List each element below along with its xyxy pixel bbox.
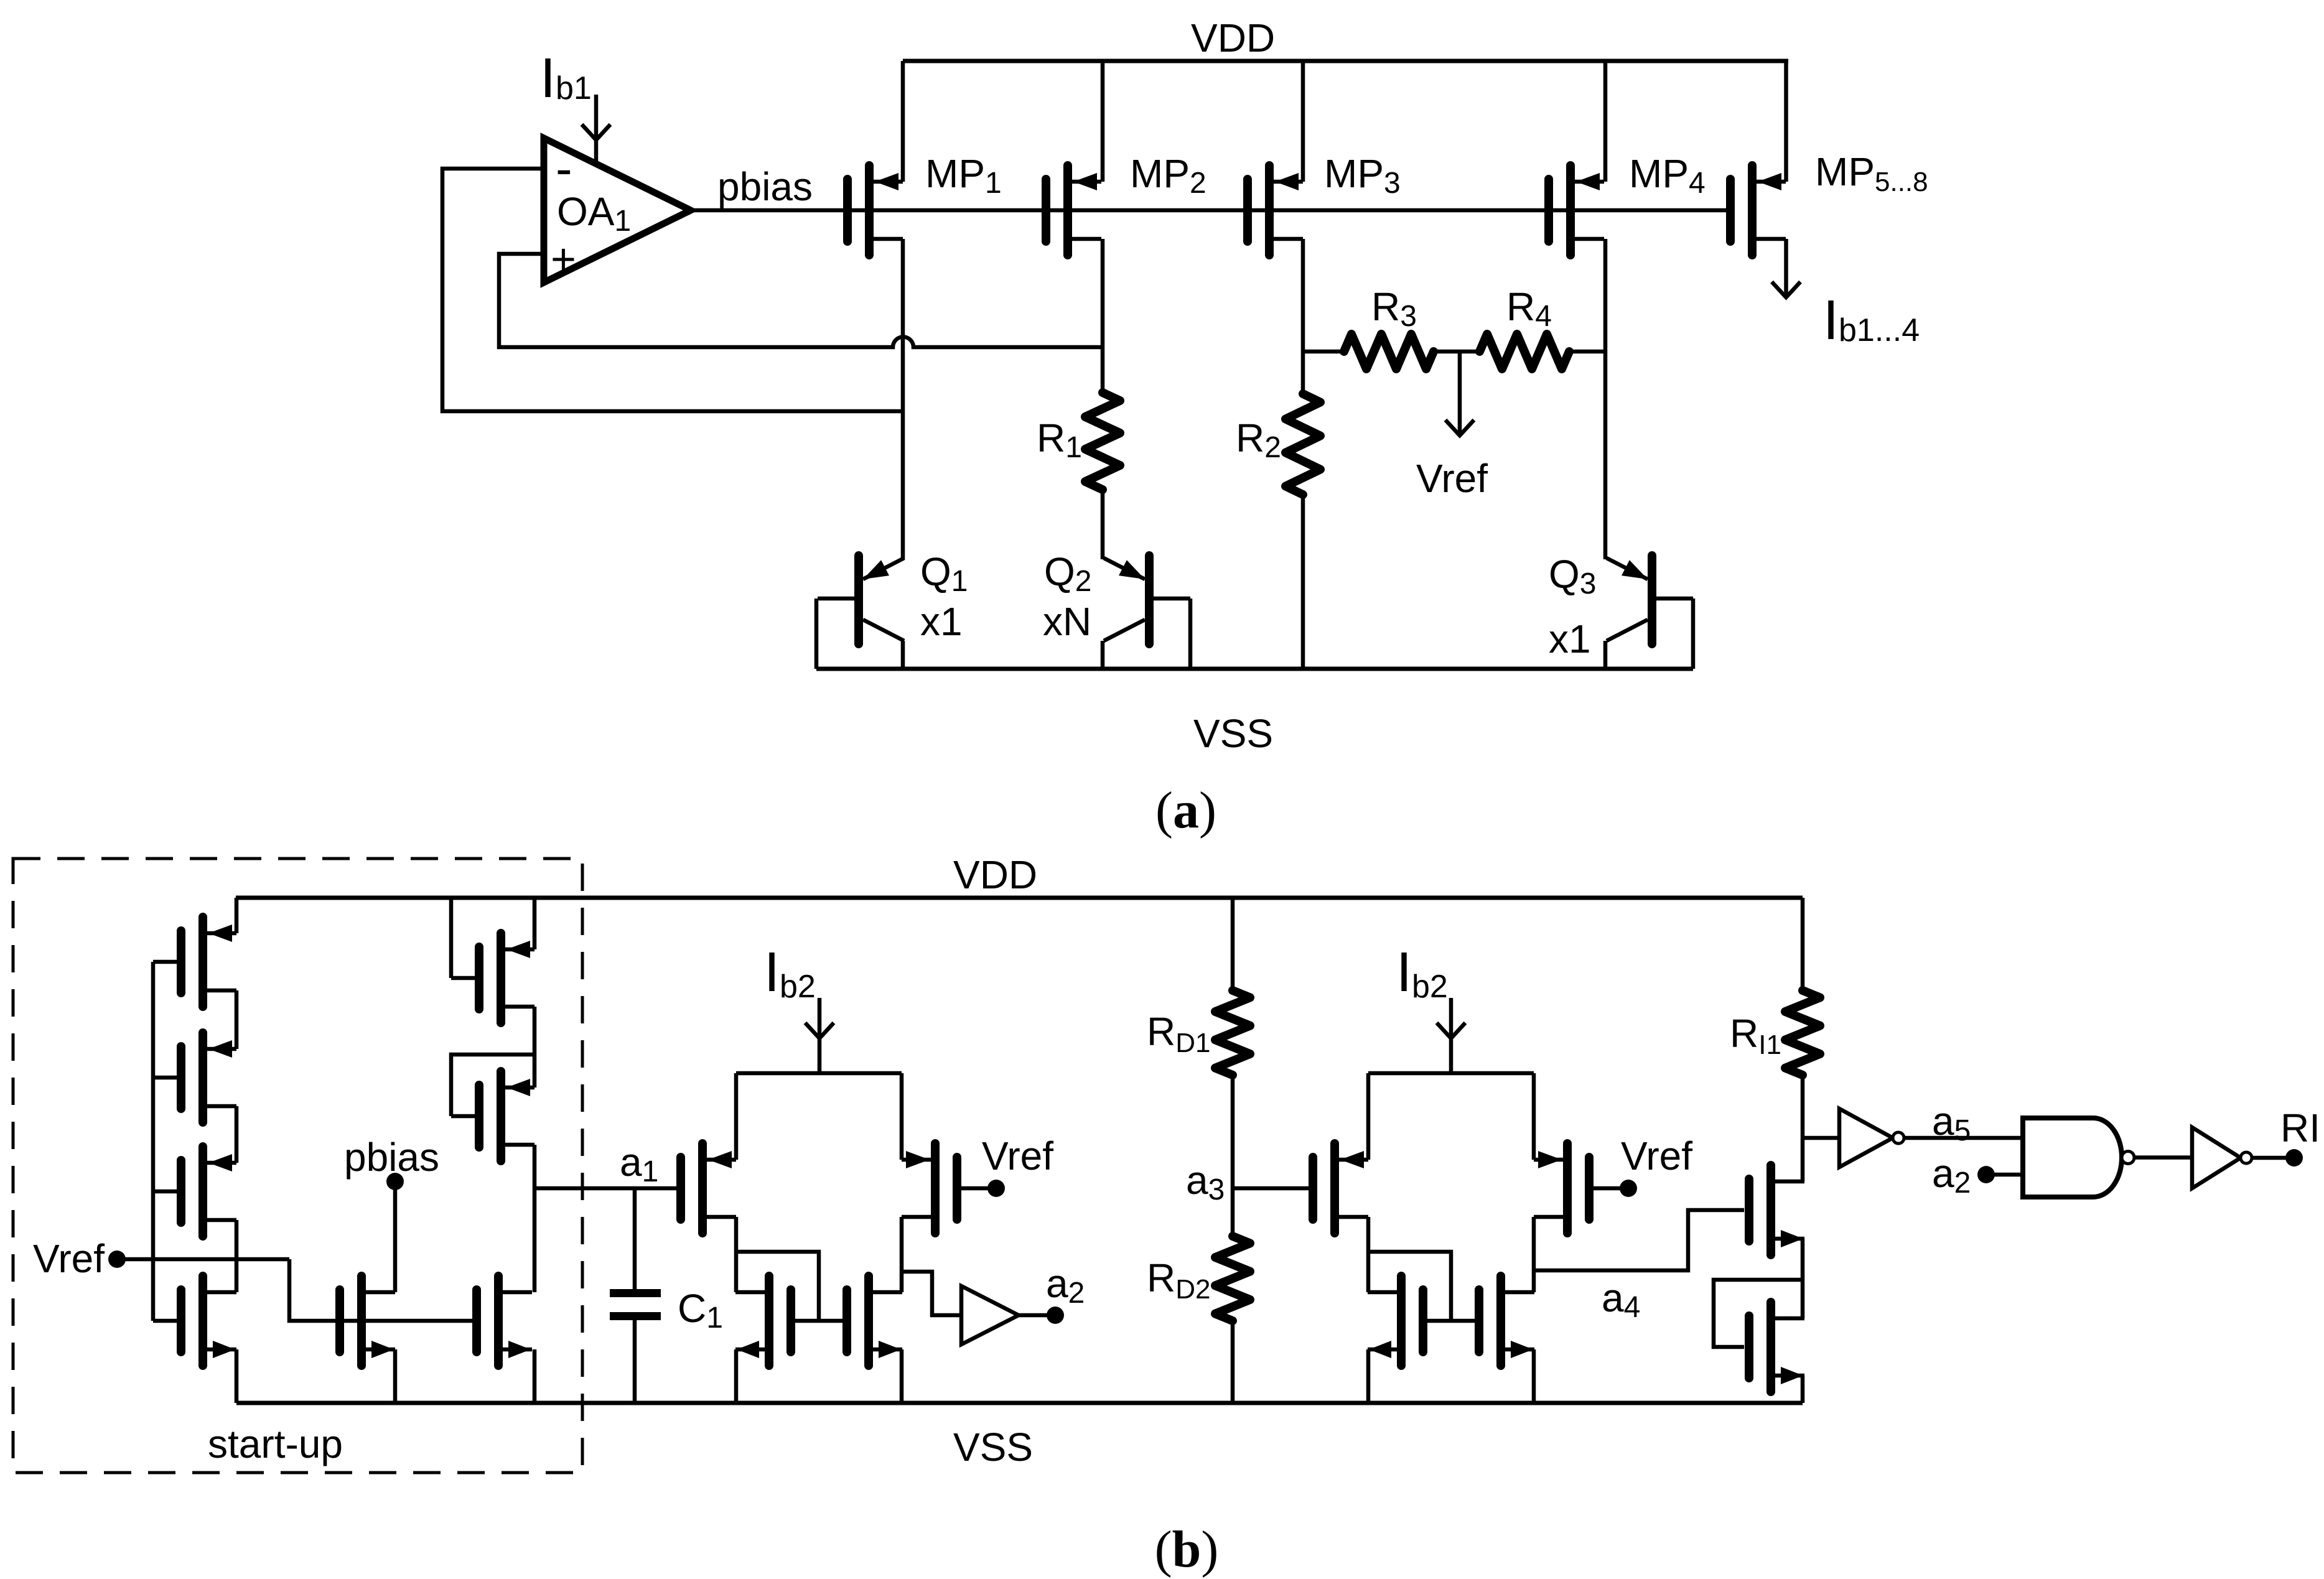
wire OA1 minus input [442,169,903,411]
wire VDD to MP5..8 source [1784,61,1788,182]
VDD rail (a) [903,59,1788,63]
wire RI1 to output NMOS [1801,1075,1805,1181]
svg-text:pbias: pbias [344,1135,439,1180]
wire mirror right source to VSS (comp1) [900,1349,904,1403]
VDD rail (b) [236,896,1803,900]
transistor M8 start-up [494,1276,503,1366]
wire inverter1 input [1803,1136,1839,1140]
pbias dot [386,1173,404,1190]
wire node a3 [1233,1186,1313,1191]
wire comp2 right source [1532,1073,1536,1160]
M2 gate stub [153,1076,181,1080]
wire pbias gate rail [691,208,1731,213]
tail rail comp1 [736,1071,902,1076]
NAND gate U1 [2023,1118,2122,1197]
resistor R2 [1286,394,1320,495]
capacitor C1 [610,1289,661,1297]
resistor R1 [1085,393,1120,490]
transistor MP1 [865,165,874,255]
resistor R4 [1480,334,1569,369]
svg-text:Vref: Vref [33,1236,105,1281]
wire comp1 right drain [900,1217,904,1292]
wire comp1 right source [900,1073,904,1160]
svg-text:VDD: VDD [953,852,1037,897]
transistor MN output lower [1766,1302,1775,1392]
wire M2 drain to M3 source [235,1106,239,1163]
wire mirror gates (comp2) [1423,1319,1479,1323]
wire start-up gate line [151,962,156,1321]
M6 gate stub [451,1114,479,1119]
svg-text:-: - [556,141,572,196]
wire output source to VSS [1801,1376,1805,1403]
transistor MN mirror right (comp1) [864,1276,873,1366]
transistor M2 start-up stack [198,1033,207,1122]
transistor MP Vref input (comp2) [1563,1143,1572,1233]
wire node a1 [534,1186,681,1191]
transistor M1 start-up stack [198,917,207,1007]
wire M7 drain to pbias [393,1181,398,1292]
wire a2 tap [902,1272,961,1315]
wire M5 gate to VDD [449,898,454,978]
wire Q3 collector to VSS [1603,641,1608,669]
transistor MN output upper [1766,1165,1775,1255]
current source Ib1 arrow [594,95,599,162]
wire VDD to RD1 [1231,898,1235,990]
svg-text:(b): (b) [1155,1521,1219,1578]
wire M3 drain to M4 drain [235,1220,239,1292]
wire Q1 base to VSS [814,599,819,669]
wire MP3 drain down [1301,239,1305,394]
transistor MP a3 input [1330,1143,1339,1233]
wire Q3 base to VSS [1691,599,1696,669]
resistor RI1 [1785,990,1820,1075]
transistor MN mirror left (comp1) [765,1276,773,1366]
transistor Q2 [1145,556,1154,644]
wire output mid [1801,1239,1805,1318]
wire Vref input [117,1257,289,1262]
svg-text:x1: x1 [920,599,963,644]
svg-text:VSS: VSS [953,1425,1033,1470]
svg-text:xN: xN [1043,599,1091,644]
svg-text:+: + [551,235,576,283]
wire VDD to MP3 source [1301,61,1305,182]
wire stack source to VDD [235,898,239,933]
wire R3-R4 mid node [1434,350,1480,354]
transistor M3 start-up stack [198,1147,207,1236]
buffer a2 [961,1286,1019,1344]
Vref dot (comp1) [987,1180,1005,1197]
a2 dot [1047,1307,1064,1324]
svg-text:Vref: Vref [1416,456,1488,501]
wire MP5..8 drain [1784,239,1788,297]
wire MP4 drain to Q3 [1603,239,1608,559]
svg-text:RI: RI [2280,1106,2320,1150]
wire inverter2 to RI dot [2252,1156,2286,1160]
transistor MP2 [1063,165,1072,255]
VSS rail (b) [236,1401,1803,1405]
Ib1...4 output arrow [1772,282,1801,297]
inverter a5 [1839,1109,1893,1167]
wire M8 source to VSS [533,1349,537,1403]
wire M6 gate to source node [451,1055,534,1116]
wire Q1 collector to VSS [901,641,905,669]
wire node a4 [1534,1210,1744,1270]
M3 gate stub [153,1190,181,1194]
svg-text:VSS: VSS [1193,711,1273,756]
transistor M7 start-up [357,1276,366,1366]
op-amp OA1 [544,138,691,282]
transistor M5 start-up [497,933,505,1023]
svg-text:pbias: pbias [717,164,813,209]
M1 gate stub [153,960,181,964]
transistor M6 start-up [497,1071,505,1161]
M5 gate stub [451,976,479,980]
transistor MP a1 input [698,1143,707,1233]
wire Vref to NMOS gates [289,1259,477,1321]
wire MP1 drain to Q1 [901,239,905,559]
transistor MP4 [1566,165,1575,255]
svg-text:VDD: VDD [1191,16,1275,60]
wire comp2 left drain [1366,1217,1371,1292]
wire M1 drain to M2 source [235,990,239,1049]
resistor RD2 [1215,1236,1250,1321]
wire VDD to MP2 source [1101,61,1105,182]
wire Q2 base to VSS [1188,599,1193,669]
wire a1 to C1 [633,1188,637,1289]
wire VDD to MP1 source [901,61,905,182]
transistor MN mirror left (comp2) [1397,1276,1406,1366]
inverter RI [2192,1127,2241,1188]
wire Ib2 arrow (comp1) [818,998,822,1073]
transistor Q1 [854,556,863,644]
wire VDD to MP4 source [1603,61,1608,182]
wire MP2 drain to R1 [1101,239,1105,393]
wire mirror gates (comp1) [791,1319,847,1323]
Vref gate stub (comp2) [1589,1186,1620,1191]
wire R4 right [1569,350,1605,354]
wire Q2 collector to VSS [1101,641,1105,669]
transistor MN mirror right (comp2) [1496,1276,1505,1366]
wire mirror right source to VSS (comp2) [1532,1349,1536,1403]
wire R1 to Q2 [1101,490,1105,559]
svg-text:start-up: start-up [208,1422,343,1466]
svg-text:Vref: Vref [982,1134,1053,1178]
transistor M4 start-up stack [198,1276,207,1366]
wire buffer to a2 dot [1019,1313,1048,1318]
wire mirror diode (comp1) [736,1252,819,1321]
RI dot [2285,1149,2303,1167]
wire comp1 left drain [734,1217,739,1292]
resistor RD1 [1215,990,1250,1075]
start-up block box [13,859,582,1473]
wire comp2 right drain [1532,1217,1536,1292]
wire M7 source to VSS [393,1349,398,1403]
resistor R3 [1344,334,1434,369]
wire a2 to NAND [1986,1173,2023,1177]
wire RD1 to RD2 [1231,1075,1235,1236]
wire M6 drain down [533,1145,537,1292]
Vref gate stub (comp1) [957,1186,988,1191]
Vref arrow (a) [1458,352,1462,436]
wire lower gate loop [1714,1280,1803,1347]
wire M4 source to VSS [235,1349,239,1403]
wire VDD to RI1 [1801,898,1805,990]
Vref input dot [108,1251,126,1268]
wire NAND to inverter2 [2134,1155,2192,1160]
svg-text:x1: x1 [1549,617,1591,661]
wire comp1 left source [734,1073,739,1160]
VSS rail (a) [816,667,1693,671]
wire mirror left source to VSS (comp2) [1366,1349,1371,1403]
transistor MP3 [1265,165,1274,255]
wire C1 to VSS [633,1320,637,1403]
M4 gate stub [153,1319,181,1323]
wire R3 left [1303,350,1344,354]
wire RD2 to VSS [1231,1321,1235,1403]
svg-text:(a): (a) [1155,781,1216,839]
wire comp2 left source [1366,1073,1371,1160]
transistor MP Vref input (comp1) [931,1143,940,1233]
wire OA1 plus input with hop [499,254,1101,347]
tail rail comp2 [1368,1071,1534,1076]
wire R2 to VSS [1301,495,1305,669]
transistor Q3 [1648,556,1656,644]
wire M5 source to VDD [533,898,537,949]
transistor MP5...8 [1748,165,1757,255]
Vref dot (comp2) [1620,1180,1637,1197]
wire mirror diode (comp2) [1368,1252,1451,1321]
wire M5 drain to M6 source [533,1007,537,1088]
wire a5 to NAND [1904,1136,2023,1140]
wire Ib2 arrow (comp2) [1449,998,1454,1073]
svg-text:Vref: Vref [1621,1134,1692,1178]
wire mirror left source to VSS (comp1) [734,1349,739,1403]
a2 input dot [1977,1166,1995,1183]
